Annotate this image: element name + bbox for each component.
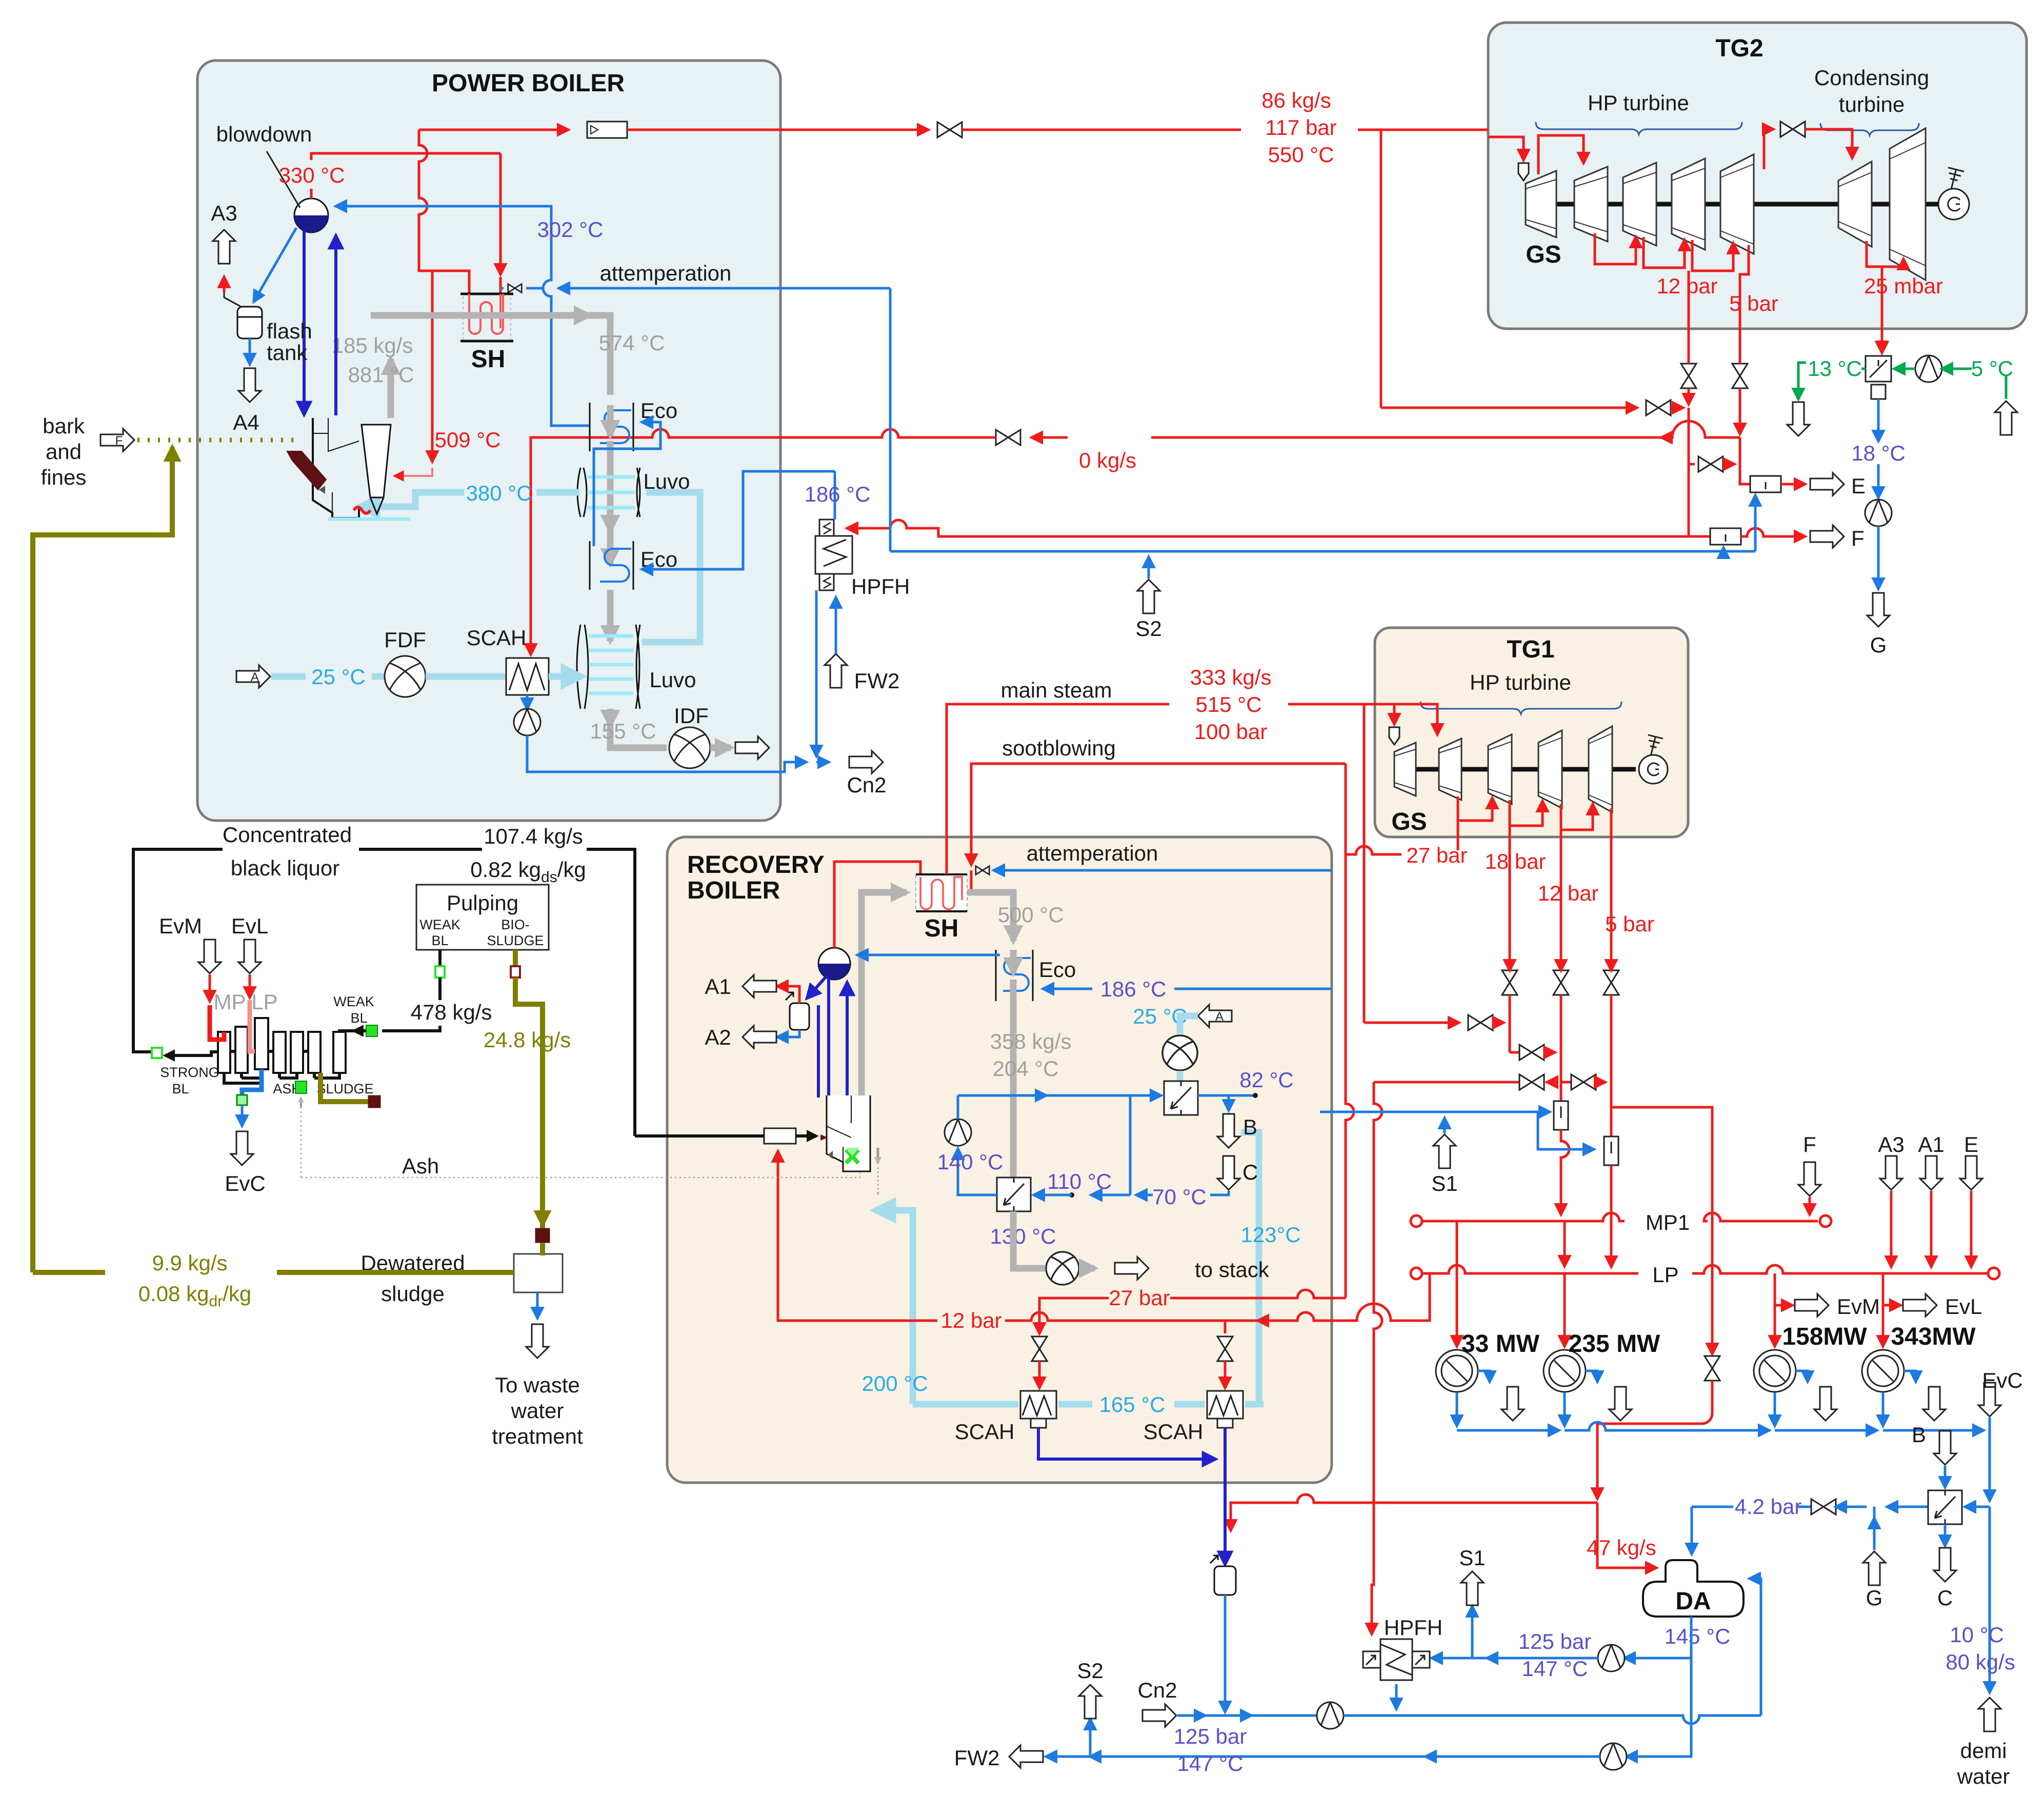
- svg-text:185 kg/s: 185 kg/s: [332, 333, 413, 357]
- gray flue Luvo2 down to IDF: [607, 709, 614, 726]
- A1 inflow: [1920, 1156, 1942, 1190]
- svg-text:S1: S1: [1431, 1171, 1457, 1195]
- RECOVERY BOILER box: [667, 837, 1332, 1483]
- off-page arrow FW2 out: [1009, 1745, 1043, 1768]
- svg-text:12 bar: 12 bar: [940, 1308, 1001, 1332]
- E flow element: [1750, 476, 1781, 492]
- blue condensate 18C: [1877, 399, 1880, 441]
- svg-text:A: A: [1215, 1010, 1224, 1024]
- blue Eco1 outlet to drum: [336, 206, 590, 426]
- EvC return main: [1989, 1430, 1991, 1501]
- svg-text:500 °C: 500 °C: [998, 903, 1064, 927]
- generator G TG1: [1639, 755, 1668, 784]
- svg-text:S1: S1: [1459, 1546, 1485, 1570]
- blowdown leader line: [267, 151, 300, 208]
- blue S2 attemperation header: [890, 550, 1755, 553]
- valve 18bar: [1502, 970, 1517, 995]
- gray to stack arrow: [1079, 1265, 1095, 1272]
- condenser box: [1866, 356, 1891, 382]
- blue condensate from LP effect: [242, 1069, 262, 1095]
- svg-text:MP1: MP1: [1646, 1210, 1690, 1234]
- thin red to furnace: [395, 468, 432, 476]
- svg-text:0.82 kgds/kg: 0.82 kgds/kg: [470, 857, 586, 886]
- wire 18bar trunk riser to HPFH/DA: [1374, 1082, 1382, 1503]
- svg-text:TG1: TG1: [1507, 636, 1554, 663]
- governor valve TG2: [1518, 163, 1529, 181]
- valve LP to DA branch: [1711, 1216, 1714, 1354]
- black liquor heater: [764, 1128, 796, 1144]
- svg-text:flash: flash: [267, 319, 312, 343]
- wire LP to 235MW: [1564, 1273, 1566, 1346]
- E inflow: [1960, 1156, 1982, 1190]
- wire bypass horizontal to 12bar: [1381, 407, 1637, 409]
- svg-text:SH: SH: [925, 915, 959, 942]
- wire 12bar vertical through junction: [1688, 408, 1690, 536]
- turbine stage T2-2: [1574, 167, 1608, 242]
- valve bypass TG1: [1468, 1015, 1493, 1030]
- svg-text:WEAK: WEAK: [419, 917, 460, 932]
- svg-text:80 kg/s: 80 kg/s: [1946, 1650, 2015, 1674]
- svg-text:107.4 kg/s: 107.4 kg/s: [484, 824, 583, 848]
- air 200C duct up to furnace: [875, 1210, 913, 1404]
- condensing stage C2: [1890, 128, 1926, 280]
- LP header left: [1411, 1268, 1422, 1279]
- condensing loop: [1867, 241, 1903, 267]
- weak BL line from pulping: [438, 950, 442, 966]
- cyan Luvo1 to furnace 380C: [359, 492, 579, 507]
- svg-text:Cn2: Cn2: [847, 773, 886, 797]
- water to waste treatment: [536, 1292, 539, 1318]
- svg-text:S2: S2: [1135, 616, 1161, 641]
- svg-text:5 bar: 5 bar: [1605, 912, 1654, 936]
- off-page arrow F: [1810, 525, 1844, 548]
- Luvo2 PB: [577, 625, 640, 709]
- svg-text:186 °C: 186 °C: [805, 482, 871, 506]
- condensate pump: [1865, 500, 1892, 526]
- SH coil RB: [916, 874, 967, 911]
- B mixer box: [1928, 1490, 1962, 1524]
- svg-text:water: water: [1957, 1764, 2010, 1788]
- svg-text:333 kg/s: 333 kg/s: [1190, 665, 1272, 689]
- off-page arrow B out: [1217, 1114, 1240, 1148]
- HPFH bottom drain: [1395, 1684, 1398, 1709]
- svg-text:47 kg/s: 47 kg/s: [1587, 1535, 1656, 1560]
- wire drum to SH: [834, 862, 920, 948]
- blue heater loop top line: [958, 1094, 1046, 1097]
- pump condensate: [1317, 1702, 1344, 1729]
- attemperation water vessel: [1214, 1566, 1236, 1595]
- cyan from A to fan: [1180, 1016, 1198, 1034]
- wire flash top to A3: [224, 292, 241, 307]
- wire A2 blue: [777, 1030, 799, 1037]
- A3 inflow: [1880, 1156, 1902, 1190]
- valve 5bar: [1604, 970, 1619, 995]
- svg-text:tank: tank: [267, 341, 308, 365]
- extraction loop 4-5 + 12 bar tap: [1692, 240, 1733, 271]
- wire 5bar valve down: [1610, 995, 1613, 1136]
- valve 12bar: [1553, 970, 1569, 995]
- svg-text:A3: A3: [1878, 1132, 1904, 1156]
- svg-text:125 bar: 125 bar: [1174, 1724, 1247, 1748]
- Pulping box: [416, 885, 549, 950]
- EvM feed: [198, 940, 221, 973]
- svg-text:GS: GS: [1391, 808, 1427, 835]
- wire element to E: [1781, 483, 1805, 486]
- wire 18bar trunk to DA junction: [1231, 1494, 1374, 1530]
- consumer outlet stubs + drain arrows: [1478, 1371, 1490, 1382]
- SH box PB: [460, 294, 513, 341]
- pump PB SCAH: [514, 709, 540, 735]
- smelt green X: [846, 1150, 858, 1163]
- svg-text:sootblowing: sootblowing: [1002, 736, 1116, 760]
- brace condensing turbine: [1820, 123, 1919, 135]
- valve SCAH1 feed: [1032, 1337, 1047, 1361]
- bark dotted line: [137, 438, 300, 443]
- 25 mbar tap from condensing: [1881, 267, 1883, 353]
- svg-text:to stack: to stack: [1195, 1258, 1270, 1282]
- sootblowing drop into SH inlet: [970, 854, 973, 865]
- svg-text:To waste: To waste: [495, 1373, 580, 1397]
- loop s3-s4: [1510, 801, 1542, 826]
- 5 bar tap from stage5: [1740, 245, 1749, 359]
- air fan RB: [1163, 1035, 1197, 1070]
- blue PB out to Cn2 junction: [816, 761, 829, 764]
- svg-text:EvM: EvM: [159, 914, 202, 938]
- extraction loop 2-3: [1595, 233, 1636, 264]
- svg-text:Concentrated: Concentrated: [223, 823, 352, 847]
- svg-text:BOILER: BOILER: [687, 877, 780, 904]
- svg-text:F: F: [1803, 1132, 1816, 1156]
- wire EvC into condensate header: [1989, 1418, 1991, 1430]
- demi water arrow: [1978, 1698, 2001, 1731]
- steam drum RB: [818, 948, 850, 980]
- svg-text:DA: DA: [1675, 1588, 1711, 1615]
- svg-text:Condensing: Condensing: [1814, 66, 1929, 90]
- svg-text:SCAH: SCAH: [467, 626, 527, 650]
- off-page arrow G out: [1867, 593, 1890, 627]
- valve SCAH2 feed: [1217, 1337, 1233, 1361]
- blue 4.2 bar line into DA: [1691, 1507, 1693, 1554]
- wire F line from 12bar vertical: [1689, 535, 1710, 538]
- svg-text:A3: A3: [211, 201, 237, 225]
- svg-text:A1: A1: [705, 974, 731, 999]
- svg-text:A4: A4: [233, 410, 259, 434]
- off-page arrow EvC out: [231, 1131, 253, 1165]
- inlet loop to stage2: [1538, 135, 1584, 174]
- wire HPFH heating steam: [847, 520, 1689, 536]
- wire text to TG2: [1358, 129, 1488, 131]
- svg-text:SLUDGE: SLUDGE: [487, 933, 544, 948]
- navy riser furnace to drum: [846, 983, 849, 1098]
- shaft TG2: [1533, 202, 1933, 207]
- svg-text:18 bar: 18 bar: [1485, 849, 1546, 873]
- svg-text:B: B: [1912, 1423, 1926, 1447]
- svg-text:IDF: IDF: [674, 704, 709, 728]
- gray flue Luvo1 to Eco2: [607, 521, 614, 564]
- svg-text:147 °C: 147 °C: [1522, 1657, 1588, 1681]
- blue drum to flash tank: [254, 228, 296, 302]
- HPFH2 heat exchanger: [1363, 1639, 1430, 1680]
- wire 509 drop: [431, 271, 434, 462]
- turbine stage T1-2: [1439, 739, 1461, 800]
- B inflow: [1934, 1431, 1956, 1465]
- svg-text:HPFH: HPFH: [1384, 1616, 1442, 1640]
- svg-text:F: F: [115, 434, 123, 448]
- svg-text:LP: LP: [251, 990, 277, 1014]
- extraction loop 3-4: [1644, 237, 1685, 268]
- green wire pump to condenser: [1894, 368, 1915, 370]
- S2 outflow riser: [1089, 1719, 1092, 1757]
- main steam bypass riser TG1: [1363, 704, 1366, 1023]
- blue SCAH condensate to pump: [526, 695, 529, 709]
- condensing stage C1: [1838, 162, 1872, 247]
- svg-text:186 °C: 186 °C: [1100, 977, 1167, 1001]
- DA outlet pump line 125bar: [1625, 1617, 1691, 1658]
- steam inlet TG2: [1488, 137, 1524, 160]
- SCAH2: [1207, 1391, 1243, 1428]
- Eco RB: [996, 950, 1033, 1001]
- svg-text:100 bar: 100 bar: [1194, 720, 1267, 744]
- gray flue main horizontal: [371, 312, 590, 319]
- svg-text:Eco: Eco: [640, 398, 677, 423]
- off-page arrow A4: [238, 368, 261, 402]
- gray flue IDF out: [710, 745, 731, 751]
- off-page arrow flue out: [735, 736, 769, 759]
- main steam vertical with humps: [419, 130, 469, 294]
- gray flue through Eco1: [607, 405, 614, 436]
- FDF fan: [385, 656, 426, 697]
- wire 25mbar to condenser: [1881, 329, 1883, 352]
- svg-text:Cn2: Cn2: [1137, 1678, 1177, 1702]
- svg-text:A2: A2: [705, 1025, 731, 1049]
- svg-text:RECOVERY: RECOVERY: [687, 851, 825, 879]
- off-page arrow A1: [743, 975, 776, 998]
- svg-text:S2: S2: [1077, 1659, 1103, 1683]
- svg-text:treatment: treatment: [492, 1424, 583, 1448]
- wire 0 kg/s line (to power boiler): [1661, 421, 1740, 437]
- svg-text:27 bar: 27 bar: [1109, 1286, 1170, 1310]
- POWER BOILER box: [197, 61, 780, 821]
- main steam inlet arrow TG1: [1393, 704, 1396, 724]
- off-page arrow EvL: [1903, 1294, 1937, 1317]
- navy downcomer drum to furnace: [807, 976, 827, 998]
- wire MP1 to 33MW: [1456, 1221, 1458, 1346]
- consumer 235MW: [1544, 1350, 1586, 1392]
- svg-text:86 kg/s: 86 kg/s: [1261, 88, 1331, 112]
- recovery furnace body: [827, 1095, 878, 1195]
- FW2 arrow in: [825, 654, 847, 688]
- wire 5bar to E station: [1740, 437, 1750, 484]
- svg-text:E: E: [1851, 474, 1866, 498]
- blue wire pump down: [1877, 526, 1880, 589]
- svg-text:574 °C: 574 °C: [599, 331, 665, 355]
- green wire 5C to pump: [1942, 368, 1972, 370]
- air mixer box: [1164, 1081, 1198, 1115]
- brace HP turbine TG1: [1420, 702, 1621, 714]
- svg-text:WEAK: WEAK: [333, 994, 374, 1009]
- blue heater to pump: [958, 1149, 997, 1195]
- navy downcomer drum-furnace: [303, 231, 306, 414]
- 12 bar low line: [1258, 1273, 1430, 1321]
- TG2 box: [1488, 23, 2027, 329]
- navy riser furnace-drum: [334, 236, 337, 415]
- svg-text:EvC: EvC: [225, 1171, 265, 1195]
- shaft TG1: [1402, 767, 1636, 772]
- svg-text:EvL: EvL: [1945, 1294, 1982, 1319]
- consumer 158MW: [1754, 1350, 1796, 1392]
- svg-text:attemperation: attemperation: [1027, 841, 1158, 865]
- 27 bar line to SCAH1 valve: [1170, 1290, 1346, 1298]
- gray flue riser from furnace: [388, 359, 394, 418]
- steam drum PB: [294, 198, 328, 232]
- svg-text:130 °C: 130 °C: [990, 1224, 1056, 1248]
- wire SH inlet drop: [499, 153, 502, 274]
- DA vessel: [1643, 1560, 1744, 1617]
- wire sootblowing: [971, 764, 1346, 854]
- svg-text:70 °C: 70 °C: [1152, 1185, 1207, 1209]
- A1 blowdown vessel: [790, 1003, 809, 1030]
- extraction s2 exit / 27bar: [1457, 796, 1459, 850]
- inlet loop stage2 TG1: [1408, 704, 1437, 734]
- svg-text:attemperation: attemperation: [600, 261, 732, 285]
- svg-text:BL: BL: [172, 1081, 189, 1096]
- svg-text:main steam: main steam: [1000, 678, 1112, 702]
- flow element main steam PB: [587, 122, 627, 138]
- svg-text:G: G: [1866, 1586, 1883, 1610]
- svg-text:FW2: FW2: [854, 669, 900, 693]
- EvL feed: [238, 940, 261, 973]
- valve 5bar TG2: [1732, 364, 1748, 388]
- svg-text:SLUDGE: SLUDGE: [316, 1081, 373, 1096]
- red 0kg/s drop into SCAH: [530, 437, 532, 654]
- svg-text:9.9 kg/s: 9.9 kg/s: [152, 1251, 227, 1275]
- turbine stage T1-3: [1488, 734, 1512, 804]
- dewatering box: [514, 1254, 563, 1292]
- off-page arrow Cn2: [1143, 1704, 1176, 1727]
- off-page arrow A (air in): [1198, 1005, 1232, 1027]
- blue HPFH drain: [815, 590, 818, 756]
- svg-text:358 kg/s: 358 kg/s: [990, 1029, 1072, 1053]
- svg-text:140 °C: 140 °C: [937, 1150, 1004, 1174]
- valve bypass TG2: [1646, 400, 1671, 415]
- sludge mix valve: [535, 1228, 550, 1243]
- pump DA outlet: [1598, 1645, 1625, 1671]
- off-page arrow A3: [213, 230, 235, 264]
- cyan Luvo2 up to Luvo1: [642, 492, 700, 642]
- MP1 header left: [1411, 1215, 1422, 1227]
- svg-text:117 bar: 117 bar: [1265, 115, 1336, 139]
- off-page arrow E: [1810, 473, 1844, 495]
- wire cross line 18-12-5: [1510, 1051, 1519, 1054]
- off-page arrow S1 in: [1433, 1134, 1456, 1168]
- cyan fan to mixer: [1177, 1071, 1184, 1081]
- svg-text:204 °C: 204 °C: [993, 1056, 1059, 1081]
- svg-text:blowdown: blowdown: [216, 122, 312, 146]
- Luvo1 PB: [577, 468, 640, 517]
- svg-text:A: A: [251, 670, 259, 684]
- SCAH1: [1020, 1391, 1056, 1428]
- off-page arrow S2 in: [1137, 580, 1160, 613]
- blue link deshx1 to deshx2: [1538, 1112, 1594, 1149]
- svg-text:BL: BL: [350, 1010, 367, 1026]
- svg-text:black liquor: black liquor: [231, 856, 339, 880]
- off-page arrow EvM: [1795, 1294, 1829, 1317]
- svg-text:5 bar: 5 bar: [1729, 291, 1778, 315]
- svg-text:C: C: [1243, 1160, 1258, 1184]
- off-page arrow EvC in: [1978, 1383, 2001, 1417]
- attemp valve RB: [976, 866, 989, 875]
- loop s2-s3: [1458, 798, 1492, 821]
- turbine stage T2-5: [1720, 154, 1754, 254]
- red steam into HPFH2: [1372, 1503, 1374, 1634]
- furnace PB body: [313, 418, 410, 519]
- governor valve TG1: [1389, 727, 1399, 745]
- svg-text:BIO-: BIO-: [501, 917, 530, 932]
- air duct from 123C down: [1241, 1132, 1264, 1404]
- wire valve to junction: [1671, 407, 1683, 409]
- evaporator train: [218, 1018, 354, 1083]
- condenser hotwell box: [1871, 385, 1886, 399]
- svg-text:12 bar: 12 bar: [1537, 881, 1598, 905]
- wire valve down to DA route: [1597, 1381, 1712, 1499]
- green cooling down arrow: [1798, 363, 1806, 399]
- svg-text:110 °C: 110 °C: [1047, 1169, 1112, 1193]
- green pump cooling: [1915, 355, 1942, 382]
- off-page arrow waste water: [526, 1324, 549, 1358]
- flash tank: [237, 307, 262, 338]
- svg-text:TG2: TG2: [1715, 35, 1763, 62]
- 12 bar downpipe TG2: [1688, 271, 1690, 359]
- svg-text:82 °C: 82 °C: [1239, 1068, 1294, 1092]
- off-page arrow cooling out: [1787, 402, 1810, 436]
- wire 5bar valve down: [1739, 359, 1741, 434]
- svg-text:turbine: turbine: [1839, 92, 1905, 116]
- blue Eco2 to Eco1 riser: [594, 422, 660, 546]
- svg-text:C: C: [1937, 1586, 1953, 1610]
- wire 12bar valve to desuperheater: [1560, 995, 1562, 1101]
- wire branch to DA feed riser: [1611, 1107, 1712, 1216]
- C outflow: [1944, 1524, 1947, 1546]
- wire main steam power boiler: [419, 129, 568, 131]
- svg-text:HP turbine: HP turbine: [1588, 91, 1689, 115]
- wire main steam RB riser: [947, 704, 1118, 862]
- blue spray line to desuperheaters: [1320, 1111, 1550, 1113]
- LP header right: [1692, 1265, 1988, 1273]
- valve main steam PB: [937, 122, 962, 137]
- svg-text:302 °C: 302 °C: [537, 217, 604, 242]
- generator ground symbol: [1943, 168, 1964, 191]
- svg-text:18 °C: 18 °C: [1851, 441, 1906, 465]
- effect bodies: [218, 1032, 230, 1073]
- gray flue from furnace: [861, 892, 877, 1098]
- svg-text:Pulping: Pulping: [447, 891, 518, 915]
- MP1 header right: [1704, 1213, 1818, 1221]
- extraction s4 exit / 12 bar: [1560, 804, 1562, 967]
- S2 inflow arrow: [1148, 557, 1150, 579]
- gray flue into SH: [872, 889, 907, 896]
- blue return to heater: [1130, 1095, 1153, 1195]
- wire 12bar to MP1: [1561, 1130, 1569, 1214]
- DA condensate inlet from right: [1750, 1579, 1761, 1716]
- STRONG BL out: [165, 1052, 218, 1055]
- wire TG1 bypass to 18bar: [1364, 1022, 1459, 1024]
- svg-text:27 bar: 27 bar: [1406, 843, 1467, 867]
- gray flue through Eco: [1010, 950, 1017, 973]
- svg-text:343MW: 343MW: [1891, 1323, 1976, 1350]
- water heater box (flue): [997, 1178, 1031, 1211]
- wire main steam to valve: [627, 129, 928, 131]
- olive dewatered sludge line: [33, 1270, 514, 1275]
